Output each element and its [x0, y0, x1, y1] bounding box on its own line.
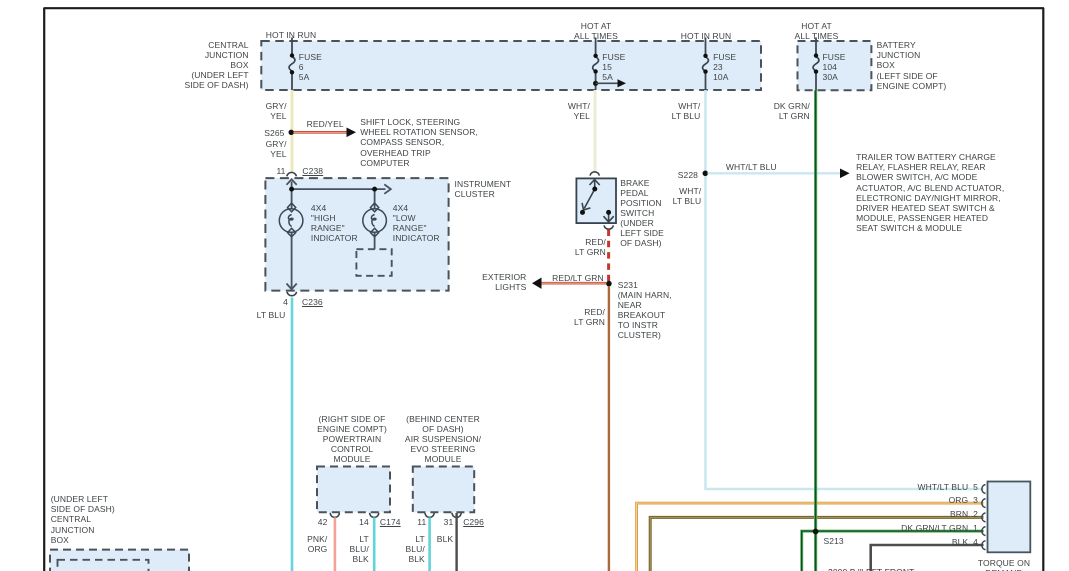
- wire: RED/YEL branch to shift lock: [294, 131, 348, 134]
- label: hot at all times (fuse 104): [767, 21, 867, 41]
- label: central junction box (top): [129, 40, 249, 90]
- label: TOD pin 1 DK GRN/LT GRN: [858, 523, 978, 533]
- wire: RED/LT GRN to exterior lights: [540, 282, 606, 285]
- PCM connector arcs + wires: [330, 513, 339, 518]
- wire: LT BLU/BLK from PCM pin 14: [373, 517, 376, 571]
- wire: LT BLU from C236 down: [291, 298, 294, 571]
- wire: RED/LT GRN dashed from brake switch to S231: [607, 230, 610, 282]
- label: exterior lights: [446, 272, 526, 292]
- lamp: 4X4 low range indicator: [363, 203, 387, 237]
- label: WHT/LT BLU below S228: [641, 186, 701, 206]
- label: connector C296: [463, 517, 484, 527]
- label: TOD pin 3 ORG: [858, 495, 978, 505]
- wire: fuse 104 feed (black): [815, 38, 817, 91]
- label: 4x4 high range indicator: [311, 203, 358, 243]
- label: RED/LT GRN horizontal: [552, 273, 604, 283]
- unnamed dashed sub-box below low range indicator: [356, 249, 391, 276]
- label: bottom clipped note: [828, 567, 914, 571]
- splice S228: [703, 171, 709, 177]
- wire: fuse 15 feed (black): [595, 38, 597, 91]
- label: connector C174: [380, 517, 401, 527]
- wire: fuse 6 feed (black, in CJB): [291, 38, 293, 91]
- label: EVO pin 31: [423, 517, 453, 527]
- brake switch connector arc (bottom): [604, 225, 613, 229]
- central junction box (dashed, top): [261, 41, 761, 90]
- label: connector C236: [302, 297, 323, 307]
- label: S228: [638, 170, 698, 180]
- label: fuse 6 value: [299, 52, 322, 82]
- wire: horizontal bus to low range lamp and right arrow: [292, 188, 386, 190]
- wire: RED/LT GRN from S231 down (solid): [608, 286, 610, 571]
- wire: DK GRN/LT GRN branch from S213 to TOD pin 1: [816, 530, 984, 533]
- fuse 6 element: [289, 57, 295, 72]
- air suspension / EVO steering module box (dashed): [413, 467, 474, 513]
- label: fuse 15 value: [602, 52, 625, 82]
- label: WHT/YEL: [530, 101, 590, 121]
- wire: DK GRN/LT GRN branch from S213 left and down: [802, 531, 816, 571]
- label: WHT/LT BLU under fuse 23: [640, 101, 700, 121]
- label: hot in run (fuse 23): [656, 31, 756, 41]
- label: powertrain control module: [302, 414, 402, 464]
- label: PCM pin 14: [339, 517, 369, 527]
- wire: LT BLU/BLK from EVO pin 11: [428, 517, 431, 571]
- label: PNK/ORG: [267, 534, 327, 554]
- label: TOD pin 2 BRN: [858, 509, 978, 519]
- label: fuse 104 value: [823, 52, 846, 82]
- label: S265: [225, 128, 285, 138]
- fuse 15 element: [593, 57, 599, 72]
- brake pedal position switch box: [576, 178, 616, 223]
- label: RED/LT GRN upper: [546, 237, 606, 257]
- wire: BLK from bottom corner to TOD pin 4: [871, 545, 984, 571]
- lamp: 4X4 high range indicator: [279, 203, 303, 237]
- label: TOD pin 5 WHT/LT BLU: [858, 482, 978, 492]
- junction + arrow inside CJB at fuse 15: [593, 81, 598, 86]
- label: BLK (EVO): [437, 534, 453, 544]
- label: RED/YEL: [307, 119, 344, 129]
- label: LT BLU/BLK (EVO): [365, 534, 425, 564]
- wire: BLK from EVO pin 31: [455, 513, 457, 571]
- label: hot in run (fuse 6): [241, 30, 341, 40]
- label: GRY/YEL upper: [227, 101, 287, 121]
- wire: DK GRN/LT GRN from fuse 104 down to S213: [814, 90, 817, 571]
- splice S265: [289, 130, 294, 135]
- label: torque on demand module: [954, 558, 1054, 571]
- label: brake pedal position switch: [620, 178, 664, 249]
- splice S231: [606, 281, 612, 287]
- label: WHT/LT BLU horizontal: [726, 162, 777, 172]
- powertrain control module box (dashed): [317, 467, 390, 513]
- label: air suspension / EVO steering module: [393, 414, 493, 464]
- label: RED/LT GRN lower: [545, 307, 605, 327]
- label: LT BLU/BLK (PCM): [309, 534, 369, 564]
- label: connector C238: [302, 166, 323, 176]
- fuse 104 element: [813, 57, 819, 72]
- label: pin 4: [258, 297, 288, 307]
- central junction box (dashed, bottom-left): [50, 550, 189, 571]
- inner dashed box of bottom central junction box: [58, 560, 149, 571]
- label: DK GRN/LT GRN: [750, 101, 810, 121]
- wire: lamp2 stub and to dashed box: [374, 189, 376, 209]
- label: LT BLU: [225, 310, 285, 320]
- wire: PNK/ORG from PCM pin 42: [334, 517, 337, 571]
- fuse 23 element: [703, 57, 709, 72]
- brake switch connector arc (top): [590, 172, 599, 176]
- instrument cluster internal wiring: [287, 179, 391, 289]
- wire: entry arrow up at C238: [291, 182, 293, 209]
- label: shift lock destination: [360, 117, 478, 167]
- wire: WHT/LT BLU from fuse 23 down to corner and right to TOD pin 5: [706, 90, 984, 489]
- label: GRY/YEL lower: [227, 139, 287, 159]
- label: fuse 23 value: [713, 52, 736, 82]
- label: battery junction box: [877, 40, 947, 90]
- wire: GRY/YEL from fuse 6 to C238: [291, 90, 294, 172]
- splice S213: [813, 529, 819, 535]
- torque on demand module box: [988, 482, 1031, 553]
- label: 4x4 low range indicator: [393, 203, 440, 243]
- label: hot at all times (fuse 15): [546, 21, 646, 41]
- wire: lamp1 down to C236 with arrow: [291, 232, 293, 289]
- label: TOD pin 4 BLK: [858, 537, 978, 547]
- wire: WHT/YEL from fuse 15 to brake switch: [594, 90, 597, 172]
- wire: WHT/LT BLU branch right from S228: [708, 172, 842, 174]
- label: pin 11: [256, 166, 286, 176]
- label: instrument cluster: [455, 179, 512, 199]
- label: S231 splice: [618, 280, 672, 341]
- label: central junction box (bottom): [51, 494, 115, 544]
- label: EVO pin 11: [396, 517, 426, 527]
- label: PCM pin 42: [297, 517, 327, 527]
- wire: BRN from bottom corner to TOD pin 2: [650, 517, 983, 571]
- TOD connector pin arcs: [982, 485, 986, 550]
- wire: ORG from bottom corner to TOD pin 3: [637, 503, 984, 571]
- wire: fuse 23 feed (black): [705, 38, 707, 91]
- connector C236 arc: [287, 292, 297, 296]
- instrument cluster box (dashed): [265, 178, 448, 291]
- connector C238 arc: [287, 172, 297, 176]
- brake pedal position switch internals: [582, 180, 614, 222]
- label: trailer tow destination list: [856, 152, 1004, 233]
- label: S213: [824, 536, 844, 546]
- EVO connector arcs + wires: [425, 513, 434, 518]
- battery junction box (dashed): [798, 41, 872, 90]
